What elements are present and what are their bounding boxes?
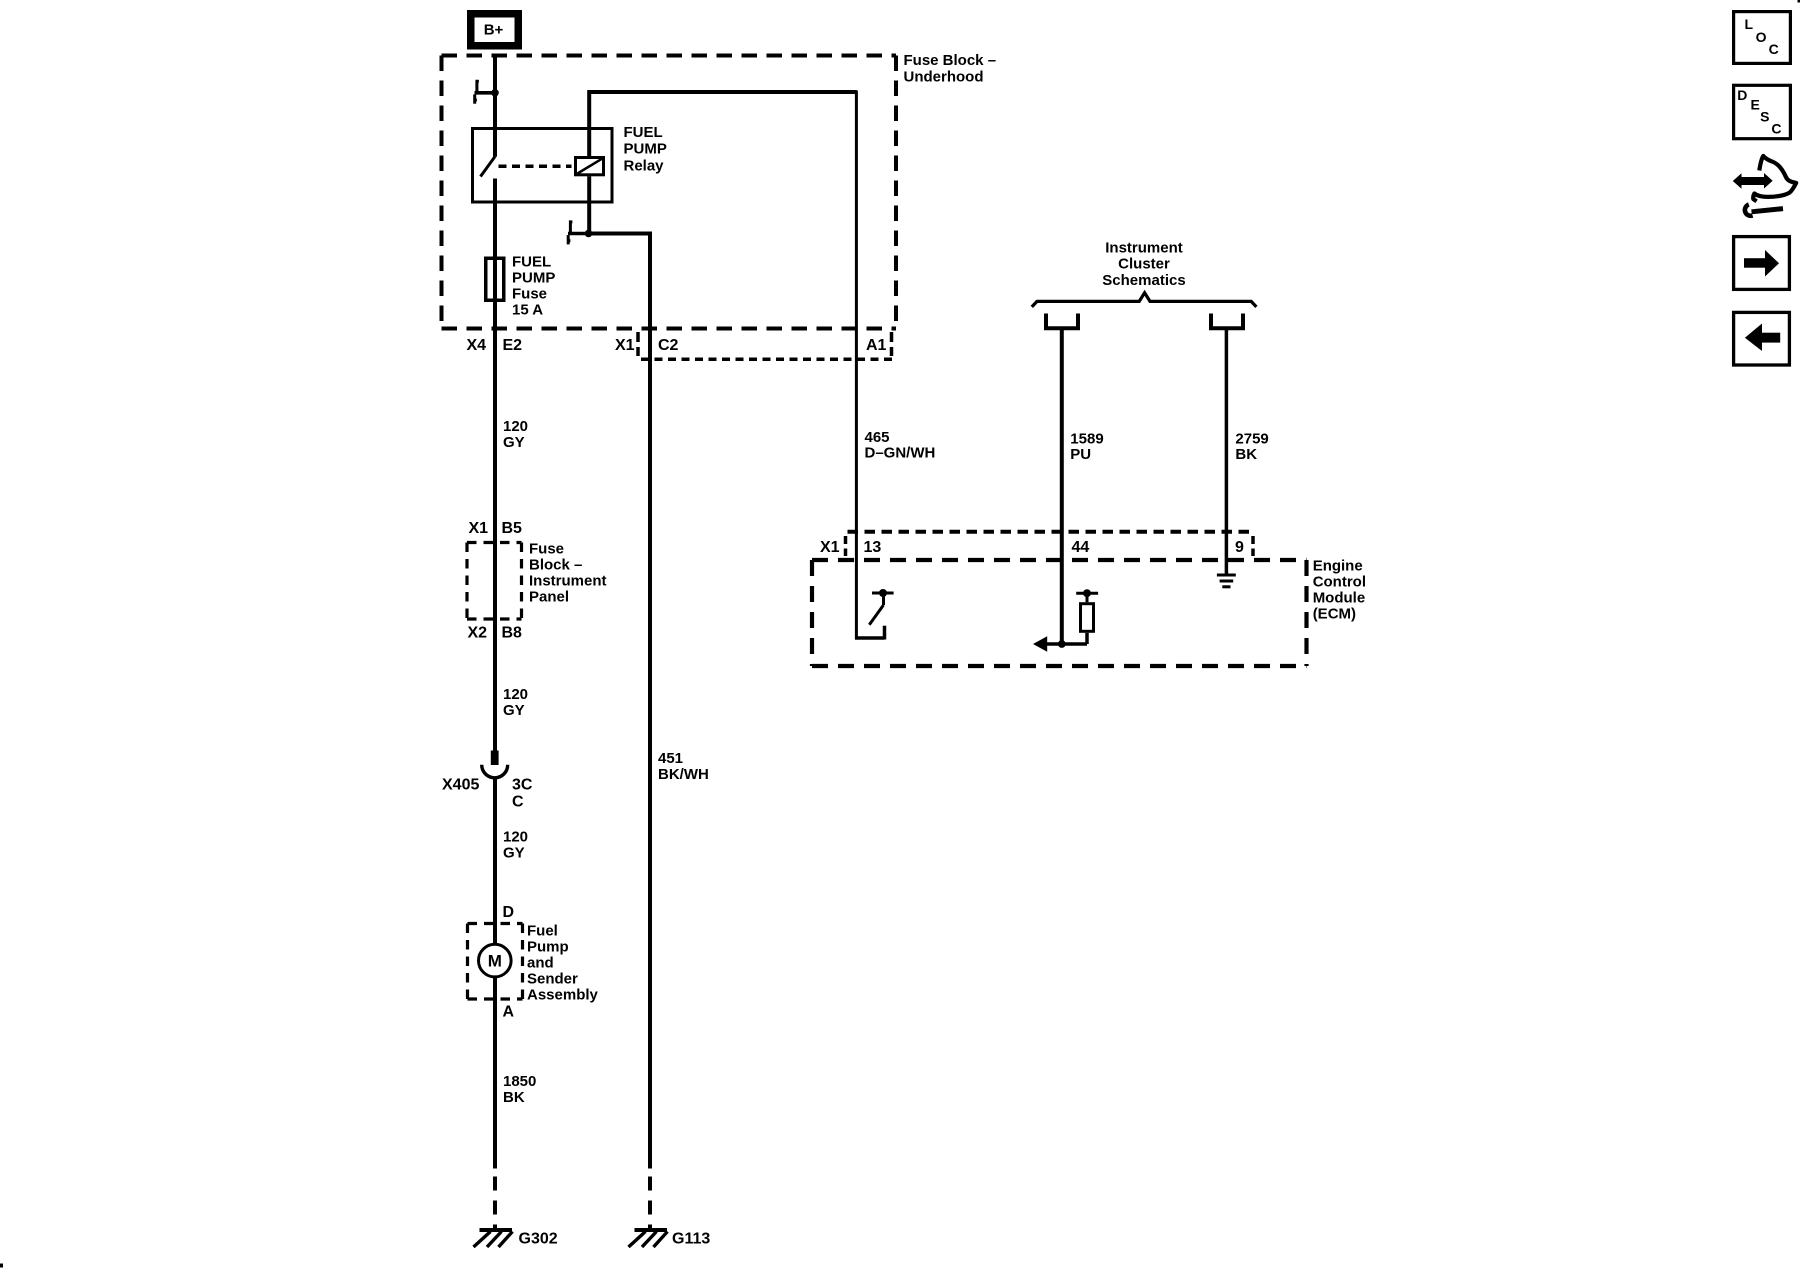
svg-text:3C: 3C: [512, 777, 533, 794]
svg-text:120: 120: [503, 828, 528, 845]
svg-text:S: S: [1760, 109, 1769, 125]
svg-text:M: M: [488, 951, 502, 970]
svg-text:Instrument: Instrument: [1105, 239, 1183, 256]
svg-text:X1: X1: [615, 337, 635, 354]
svg-text:B+: B+: [484, 21, 504, 38]
svg-text:Engine: Engine: [1313, 557, 1363, 574]
svg-text:C2: C2: [658, 337, 679, 354]
svg-text:Fuse: Fuse: [512, 285, 547, 302]
svg-text:451: 451: [658, 750, 683, 767]
svg-text:Fuse Block –: Fuse Block –: [904, 52, 997, 69]
svg-text:Module: Module: [1313, 589, 1366, 606]
svg-text:A1: A1: [866, 337, 887, 354]
svg-text:Schematics: Schematics: [1102, 272, 1185, 289]
svg-text:BK: BK: [503, 1089, 525, 1106]
svg-text:(ECM): (ECM): [1313, 605, 1356, 622]
svg-text:15 A: 15 A: [512, 301, 543, 318]
svg-text:13: 13: [864, 539, 882, 556]
svg-text:1589: 1589: [1070, 430, 1103, 447]
svg-text:D–GN/WH: D–GN/WH: [865, 444, 936, 461]
svg-text:Cluster: Cluster: [1118, 256, 1170, 273]
svg-text:Block –: Block –: [529, 556, 582, 573]
svg-text:Panel: Panel: [529, 588, 569, 605]
svg-text:1850: 1850: [503, 1073, 536, 1090]
svg-text:PUMP: PUMP: [512, 269, 555, 286]
svg-text:X2: X2: [468, 625, 488, 642]
svg-text:B5: B5: [502, 520, 523, 537]
svg-text:B8: B8: [502, 625, 523, 642]
svg-text:FUEL: FUEL: [512, 253, 551, 270]
svg-text:GY: GY: [503, 702, 525, 719]
svg-text:9: 9: [1235, 539, 1244, 556]
svg-text:Pump: Pump: [527, 938, 569, 955]
svg-text:C: C: [1769, 41, 1779, 57]
svg-text:X405: X405: [442, 777, 479, 794]
svg-text:X4: X4: [467, 337, 487, 354]
svg-text:Relay: Relay: [624, 157, 665, 174]
svg-text:BK: BK: [1235, 446, 1257, 463]
svg-text:BK/WH: BK/WH: [658, 766, 709, 783]
svg-text:C: C: [1771, 121, 1781, 137]
svg-text:X1: X1: [469, 520, 489, 537]
svg-text:Control: Control: [1313, 573, 1366, 590]
svg-text:44: 44: [1072, 539, 1090, 556]
svg-text:D: D: [503, 904, 515, 921]
svg-text:GY: GY: [503, 434, 525, 451]
svg-text:Assembly: Assembly: [527, 986, 599, 1003]
svg-text:O: O: [1756, 29, 1767, 45]
svg-text:Fuse: Fuse: [529, 540, 564, 557]
svg-text:C: C: [512, 794, 524, 811]
svg-text:Instrument: Instrument: [529, 572, 607, 589]
svg-text:GY: GY: [503, 844, 525, 861]
svg-text:E: E: [1751, 97, 1760, 113]
svg-text:G302: G302: [519, 1231, 558, 1248]
svg-text:E2: E2: [503, 337, 523, 354]
svg-text:and: and: [527, 954, 554, 971]
svg-text:D: D: [1737, 87, 1747, 103]
svg-text:PU: PU: [1070, 446, 1091, 463]
svg-text:PUMP: PUMP: [624, 141, 667, 158]
svg-text:G113: G113: [672, 1231, 710, 1248]
svg-text:A: A: [503, 1004, 515, 1021]
svg-text:120: 120: [503, 686, 528, 703]
svg-text:2759: 2759: [1235, 430, 1268, 447]
svg-text:120: 120: [503, 418, 528, 435]
svg-text:L: L: [1745, 16, 1754, 32]
svg-text:FUEL: FUEL: [624, 124, 663, 141]
svg-text:Sender: Sender: [527, 970, 578, 987]
svg-text:X1: X1: [820, 539, 840, 556]
svg-text:Underhood: Underhood: [904, 68, 984, 85]
svg-text:Fuel: Fuel: [527, 922, 558, 939]
